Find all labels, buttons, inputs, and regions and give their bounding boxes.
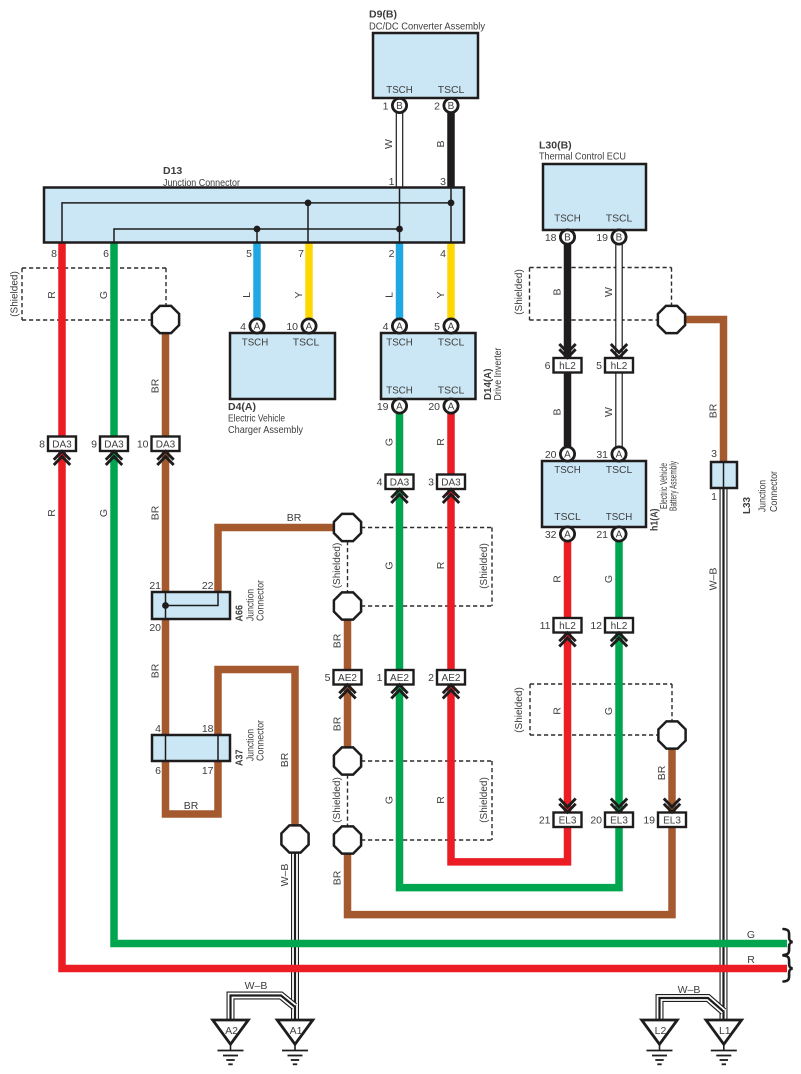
svg-text:8: 8 (39, 439, 45, 451)
svg-text:(Shielded): (Shielded) (514, 269, 525, 315)
label B wire top (435, 140, 447, 147)
connector 3 DA3 (428, 475, 465, 504)
svg-text:3: 3 (711, 448, 717, 460)
label (Shielded) right-mid (514, 687, 525, 733)
connector 10 DA3 (137, 437, 180, 466)
pin 18 B of L30 (545, 230, 575, 244)
svg-text:2: 2 (389, 248, 395, 260)
svg-text:W: W (603, 407, 615, 417)
svg-text:4: 4 (377, 477, 383, 489)
brace continuation R (784, 956, 793, 982)
svg-text:20: 20 (149, 622, 161, 634)
label W hL2-h1 (603, 407, 615, 417)
label R in shielded box left (46, 291, 58, 299)
label L wire D14 (384, 292, 396, 298)
label Y wire D4 (293, 291, 305, 298)
label h1 TSCH top (554, 464, 581, 476)
svg-text:W–B: W–B (708, 568, 720, 591)
svg-text:18: 18 (202, 723, 214, 735)
svg-text:G: G (98, 509, 110, 517)
label L30 TSCH (554, 213, 581, 225)
label D14(A) title rotated (482, 347, 504, 400)
label R mid shield 2 (435, 796, 447, 804)
svg-text:6: 6 (545, 360, 551, 372)
pin 20 A of h1 (545, 447, 575, 461)
shield dashed box (Shielded) right-mid around R,G (530, 684, 672, 735)
octagon shield connector O7 top-right (658, 306, 685, 333)
svg-text:(Shielded): (Shielded) (514, 687, 525, 733)
label G D14-DA3 (384, 438, 396, 446)
wire BR from octagon O7 to L33 pin 3 (660, 320, 724, 463)
label L33 title rotated (741, 471, 780, 514)
label L30(B) title (539, 140, 626, 163)
electric vehicle charger assembly D4(A) box (230, 333, 335, 399)
svg-text:Connector: Connector (255, 580, 267, 621)
svg-text:TSCH: TSCH (554, 213, 581, 225)
label G h1-hL2 (603, 575, 615, 583)
wire BR from A66 pin 22 to octagon O2 (218, 528, 335, 593)
connector 2 AE2 (428, 670, 465, 699)
pin 31 A of h1 (596, 447, 626, 461)
svg-text:18: 18 (545, 232, 557, 244)
wire R from D13 pin 8 via 8 DA3 to right edge brace (62, 243, 787, 969)
connector 4 DA3 (377, 475, 414, 504)
svg-text:h1(A): h1(A) (649, 509, 661, 532)
svg-text:21: 21 (596, 529, 608, 541)
label D13 pin 2 (389, 248, 395, 260)
connector 5 AE2 (325, 670, 362, 699)
label (Shielded) mid box 1 (479, 543, 490, 589)
svg-text:3: 3 (428, 477, 434, 489)
svg-text:(Shielded): (Shielded) (332, 777, 343, 823)
drive inverter D14(A) box (381, 333, 476, 399)
pin 19 B of L30 (596, 230, 626, 244)
octagon shield connector O1 top-left (152, 306, 179, 333)
svg-text:TSCL: TSCL (554, 511, 581, 523)
svg-text:5: 5 (325, 672, 331, 684)
svg-text:A1: A1 (290, 1025, 303, 1037)
svg-text:2: 2 (434, 101, 440, 113)
label D13 title (163, 165, 240, 189)
ground L1 (706, 1020, 742, 1064)
ground A2 (213, 1020, 249, 1064)
connector 12 hL2 (590, 618, 633, 647)
svg-text:A: A (616, 530, 623, 541)
label D14 TSCL bottom (438, 385, 465, 397)
label A37 pin 18 (202, 723, 214, 735)
junction connector L33 box (711, 462, 737, 488)
wire Y from D13 pin 4 to D14 pin 5 (447, 243, 455, 320)
svg-text:7: 7 (298, 248, 304, 260)
svg-text:TSCH: TSCH (606, 511, 633, 523)
svg-text:TSCL: TSCL (606, 464, 633, 476)
svg-text:(Shielded): (Shielded) (479, 543, 490, 589)
wire BR from octagon O3 via 5 AE2 to octagon O4 (344, 608, 352, 759)
pin 19 A of D14 (377, 399, 407, 413)
wire W-B from L33 pin 1 to ground L1 (720, 488, 728, 1020)
wire W-B branch ground L2 (660, 998, 724, 1020)
wire Y from D13 pin 7 to D4 pin 10 (305, 243, 313, 320)
svg-text:D13: D13 (163, 165, 182, 177)
svg-text:L: L (241, 292, 253, 298)
svg-text:EL3: EL3 (559, 816, 577, 827)
svg-text:R: R (747, 954, 755, 966)
label BR O3-AE2 (332, 633, 344, 648)
label L30 TSCL (606, 213, 633, 225)
svg-text:4: 4 (383, 321, 389, 333)
svg-text:R: R (552, 707, 564, 715)
D13 internal net pins 8-7-3-4 (62, 188, 454, 242)
label D13 pin 7 (298, 248, 304, 260)
svg-text:W–B: W–B (678, 984, 701, 996)
wire BR from octagon O1 to 10 DA3 to A66 pin 21 (162, 331, 170, 592)
shield dashed box (Shielded) top-left around R,G (22, 268, 166, 320)
svg-text:G: G (384, 561, 396, 569)
svg-text:DA3: DA3 (104, 440, 124, 451)
svg-text:A: A (396, 402, 403, 413)
label D13 pin 5 (246, 248, 252, 260)
connector 9 DA3 (91, 437, 128, 466)
svg-text:1: 1 (711, 491, 717, 503)
svg-text:Thermal Control ECU: Thermal Control ECU (539, 151, 626, 163)
connector 19 EL3 (643, 799, 686, 828)
pin 5 A of D14 (434, 319, 458, 333)
svg-text:DA3: DA3 (52, 440, 72, 451)
label BR below 10 DA3 (150, 505, 162, 520)
svg-text:R: R (435, 796, 447, 804)
svg-text:BR: BR (332, 870, 344, 885)
shield dashed link octagon O2-O3 (347, 541, 349, 593)
svg-text:TSCH: TSCH (554, 464, 581, 476)
svg-text:R: R (435, 438, 447, 446)
svg-text:TSCL: TSCL (293, 337, 320, 349)
label BR to L33 (708, 403, 720, 418)
label BR below A37 U-loop (184, 800, 199, 812)
label W-B to ground A1 (279, 864, 291, 887)
svg-text:Charger Assembly: Charger Assembly (228, 424, 304, 436)
svg-text:(Shielded): (Shielded) (479, 777, 490, 823)
label h1 TSCH bottom (606, 511, 633, 523)
svg-text:Junction Connector: Junction Connector (163, 177, 240, 189)
svg-text:BR: BR (150, 378, 162, 393)
label A37 title rotated (234, 720, 267, 766)
pin 1 B of D9 (383, 98, 407, 112)
svg-text:R: R (46, 509, 58, 517)
label BR below O5 (332, 870, 344, 885)
svg-text:TSCH: TSCH (386, 337, 413, 349)
octagon shield connector O2 (334, 514, 361, 541)
svg-text:BR: BR (332, 716, 344, 731)
connector 6 hL2 (545, 344, 582, 373)
thermal control ECU L30(B) box (543, 164, 646, 230)
label h1(A) title rotated (649, 461, 680, 531)
svg-text:9: 9 (91, 439, 97, 451)
svg-text:19: 19 (377, 401, 389, 413)
svg-text:BR: BR (287, 512, 302, 524)
label G right shield (603, 707, 615, 715)
label G below 9 DA3 (98, 509, 110, 517)
svg-text:4: 4 (240, 321, 246, 333)
svg-text:3: 3 (440, 176, 446, 188)
svg-text:BR: BR (279, 752, 291, 767)
svg-text:TSCH: TSCH (386, 385, 413, 397)
label (Shielded) mid link 2 (332, 777, 343, 823)
svg-text:A: A (306, 322, 313, 333)
wire G from D14 pin 19 via 4 DA3, 1 AE2 to 20 EL3 (400, 413, 620, 888)
svg-text:BR: BR (184, 800, 199, 812)
svg-text:L1: L1 (719, 1025, 731, 1037)
connector 8 DA3 (39, 437, 76, 466)
label B hL2-h1 (552, 408, 564, 415)
label BR on x295 column (279, 752, 291, 767)
wire BR from A66 pin 20 to A37 pin 4 (162, 619, 170, 735)
shield dashed box (Shielded) mid-lower around G,R (361, 761, 492, 840)
svg-text:TSCH: TSCH (386, 84, 413, 96)
wire BR from octagon O5 to 19 EL3 (348, 827, 673, 915)
svg-text:A: A (616, 450, 623, 461)
DC/DC converter assembly D9(B) box (373, 33, 478, 98)
wire R from h1 pin 32 via 11 hL2 to 21 EL3 (564, 541, 572, 813)
connector 5 hL2 (596, 344, 633, 373)
wire G from D13 pin 6 via 9 DA3 to right edge brace (114, 243, 787, 944)
svg-text:G: G (384, 796, 396, 804)
label BR above 10 DA3 (150, 378, 162, 393)
wire BR from A37 pin 18 to octagon O6 (218, 670, 295, 828)
svg-text:A: A (396, 322, 403, 333)
label h1 TSCL top (606, 464, 633, 476)
svg-text:A: A (448, 402, 455, 413)
svg-text:10: 10 (286, 321, 298, 333)
svg-text:5: 5 (596, 360, 602, 372)
label D4 TSCL (293, 337, 320, 349)
label R right shield (552, 707, 564, 715)
label (Shielded) mid box 2 (479, 777, 490, 823)
label D9 TSCH (386, 84, 413, 96)
svg-text:19: 19 (643, 815, 655, 827)
wire W-B from octagon to ground A1 (291, 851, 299, 1020)
wire W from L30 pin 19 to h1 pin 31 (615, 244, 623, 448)
svg-text:L33: L33 (741, 497, 753, 514)
svg-text:hL2: hL2 (611, 361, 628, 372)
svg-text:21: 21 (539, 815, 551, 827)
svg-text:Battery Assembly: Battery Assembly (668, 461, 680, 511)
svg-text:Y: Y (435, 291, 447, 298)
wire W-B branch ground A2 (231, 996, 295, 1021)
svg-text:1: 1 (389, 176, 395, 188)
wire L from D13 pin 5 to D4 pin 4 (253, 243, 261, 320)
svg-text:L2: L2 (655, 1025, 667, 1037)
svg-text:W: W (383, 139, 395, 149)
svg-text:G: G (603, 707, 615, 715)
svg-text:12: 12 (590, 620, 602, 632)
shield dashed box (Shielded) mid-upper around G,R (361, 528, 492, 607)
label W wire top (383, 139, 395, 149)
svg-text:W–B: W–B (245, 980, 268, 992)
svg-text:B: B (448, 101, 455, 112)
label A66 pin 21 (149, 580, 161, 592)
svg-text:Junction: Junction (757, 480, 769, 512)
svg-text:BR: BR (150, 505, 162, 520)
svg-text:A2: A2 (225, 1025, 238, 1037)
label h1 TSCL bottom (554, 511, 581, 523)
svg-text:31: 31 (596, 449, 608, 461)
svg-text:hL2: hL2 (559, 361, 576, 372)
label D13 pin 6 (103, 248, 109, 260)
svg-text:Y: Y (293, 291, 305, 298)
label BR horizontal A66-O2 (287, 512, 302, 524)
svg-text:AE2: AE2 (390, 673, 409, 684)
label D14 TSCH bottom (386, 385, 413, 397)
svg-text:BR: BR (708, 403, 720, 418)
svg-text:A: A (564, 530, 571, 541)
svg-text:6: 6 (103, 248, 109, 260)
label BR O8-EL3 (656, 765, 668, 780)
octagon shield connector O8 right-mid (658, 721, 685, 748)
svg-text:19: 19 (596, 232, 608, 244)
label D14 TSCH top (386, 337, 413, 349)
pin 10 A of D4 (286, 319, 316, 333)
svg-text:EL3: EL3 (610, 816, 628, 827)
svg-text:20: 20 (428, 401, 440, 413)
label (Shielded) top-right (514, 269, 525, 315)
svg-text:A: A (254, 322, 261, 333)
label A37 pin 6 (155, 765, 161, 777)
ground A1 (277, 1020, 313, 1064)
octagon shield connector O4 (334, 747, 361, 774)
svg-text:AE2: AE2 (442, 673, 461, 684)
svg-text:DA3: DA3 (390, 478, 410, 489)
svg-text:1: 1 (377, 672, 383, 684)
ground L2 (642, 1020, 678, 1064)
svg-text:21: 21 (149, 580, 161, 592)
svg-text:6: 6 (155, 765, 161, 777)
D13 internal net pins 6-5-1-2 (114, 188, 403, 242)
svg-text:BR: BR (150, 663, 162, 678)
label W-B L33-L1 (708, 568, 720, 591)
svg-text:B: B (552, 408, 564, 415)
svg-text:B: B (552, 288, 564, 295)
label A37 pin 4 (155, 723, 161, 735)
label L33 pin 1 (711, 491, 717, 503)
label BR between A66 and A37 (150, 663, 162, 678)
svg-text:B: B (435, 140, 447, 147)
wire BR from octagon O8 to 19 EL3 (668, 737, 676, 813)
wire BR U-loop A37 pin 6 to pin 17 (166, 761, 219, 814)
svg-text:(Shielded): (Shielded) (10, 271, 21, 317)
svg-text:TSCH: TSCH (242, 337, 269, 349)
svg-text:D4(A): D4(A) (228, 401, 256, 413)
svg-text:W: W (603, 287, 615, 297)
wire R from D14 pin 20 via 3 DA3, 2 AE2 to 21 EL3 (451, 413, 568, 862)
octagon shield connector O6 left (281, 825, 308, 852)
octagon shield connector O3 (334, 592, 361, 619)
svg-text:R: R (552, 575, 564, 583)
svg-text:8: 8 (51, 248, 57, 260)
svg-text:D9(B): D9(B) (369, 9, 397, 21)
label D4(A) title (228, 401, 304, 436)
label (Shielded) mid link 1 (332, 543, 343, 589)
label D13 top pin 1 (389, 176, 395, 188)
label L wire D4 (241, 292, 253, 298)
svg-text:TSCL: TSCL (438, 84, 465, 96)
svg-text:20: 20 (545, 449, 557, 461)
label B L30-hL2 (552, 288, 564, 295)
label D13 pin 4 (440, 248, 446, 260)
svg-text:BR: BR (332, 633, 344, 648)
svg-text:22: 22 (202, 580, 214, 592)
label R D14-DA3 (435, 438, 447, 446)
svg-text:AE2: AE2 (338, 673, 357, 684)
svg-text:R: R (435, 561, 447, 569)
svg-text:Drive Inverter: Drive Inverter (492, 347, 504, 400)
svg-text:W–B: W–B (279, 864, 291, 887)
label D9 TSCL (438, 84, 465, 96)
svg-text:DA3: DA3 (441, 478, 461, 489)
svg-text:32: 32 (545, 529, 557, 541)
wire B from D9 pin 2 to D13 pin 3 (447, 113, 455, 189)
svg-text:1: 1 (383, 101, 389, 113)
svg-text:TSCL: TSCL (438, 337, 465, 349)
label W L30-hL2 (603, 287, 615, 297)
svg-text:TSCL: TSCL (438, 385, 465, 397)
svg-text:G: G (98, 291, 110, 299)
svg-text:B: B (616, 233, 623, 244)
label A37 pin 17 (202, 765, 214, 777)
shield dashed box (Shielded) top-right around B,W (530, 268, 672, 321)
electric vehicle battery assembly h1(A) box (542, 461, 646, 527)
svg-text:DC/DC Converter Assembly: DC/DC Converter Assembly (369, 21, 486, 33)
svg-text:BR: BR (656, 765, 668, 780)
label R below 8 DA3 (46, 509, 58, 517)
label BR AE2-O4 (332, 716, 344, 731)
label G in shielded box left (98, 291, 110, 299)
svg-text:11: 11 (540, 620, 551, 632)
label R mid shield 1 (435, 561, 447, 569)
svg-text:hL2: hL2 (559, 621, 576, 632)
label D13 top pin 3 (440, 176, 446, 188)
svg-text:R: R (46, 291, 58, 299)
svg-text:TSCL: TSCL (606, 213, 633, 225)
svg-text:2: 2 (428, 672, 434, 684)
label G mid shield 1 (384, 561, 396, 569)
svg-text:G: G (384, 438, 396, 446)
svg-text:B: B (396, 101, 403, 112)
pin 32 A of h1 (545, 527, 575, 541)
pin 4 A of D4 (240, 319, 264, 333)
svg-text:(Shielded): (Shielded) (332, 543, 343, 589)
svg-text:5: 5 (246, 248, 252, 260)
brace continuation G (784, 929, 793, 955)
svg-text:B: B (564, 233, 571, 244)
svg-text:Connector: Connector (768, 471, 780, 512)
svg-text:5: 5 (434, 321, 440, 333)
svg-text:Connector: Connector (255, 720, 267, 761)
label D9(B) title (369, 9, 486, 33)
label G right edge (747, 929, 755, 941)
wire W from D9 pin 1 to D13 pin 1 (396, 113, 404, 189)
connector 11 hL2 (540, 618, 582, 647)
svg-text:17: 17 (202, 765, 214, 777)
wire L from D13 pin 2 to D14 pin 4 (396, 243, 404, 320)
label A66 pin 22 (202, 580, 214, 592)
svg-text:10: 10 (137, 439, 149, 451)
junction connector D13 box (44, 188, 464, 243)
junction connector A37 box (152, 735, 230, 761)
label W-B ground L2 branch (678, 984, 701, 996)
shield dashed link octagon O4-O5 (347, 775, 349, 827)
connector 20 EL3 (590, 799, 633, 828)
svg-text:EL3: EL3 (663, 816, 681, 827)
